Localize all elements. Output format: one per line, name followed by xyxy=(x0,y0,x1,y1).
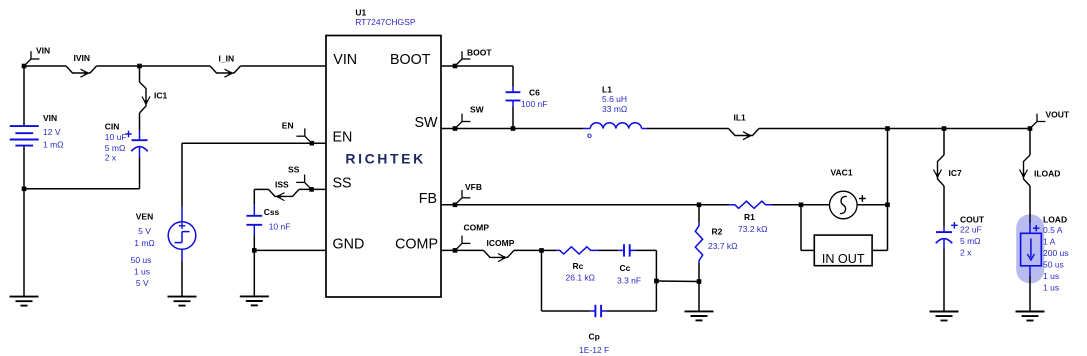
value 2 x xyxy=(105,153,117,163)
svg-text:IC1: IC1 xyxy=(154,91,168,101)
svg-text:COMP: COMP xyxy=(464,223,490,233)
svg-text:BOOT: BOOT xyxy=(467,48,492,58)
capacitor COUT electrolytic xyxy=(936,232,952,249)
current probe ILOAD xyxy=(1020,155,1061,186)
svg-text:IL1: IL1 xyxy=(734,113,747,123)
node BOOT flag xyxy=(455,48,492,67)
op-amp U1 body xyxy=(326,36,441,298)
label VAC1 xyxy=(831,168,853,178)
junction VAC1 right xyxy=(885,203,890,208)
svg-text:R1: R1 xyxy=(744,212,755,222)
node COMP flag xyxy=(455,223,489,251)
phase dot o xyxy=(587,131,592,140)
svg-text:5 mΩ: 5 mΩ xyxy=(960,236,981,246)
wire ILOAD to LOAD xyxy=(1029,186,1031,233)
pin VIN xyxy=(333,52,357,68)
wire VOUT rail xyxy=(759,128,1030,130)
pin COMP xyxy=(395,237,438,253)
wire Cp branch left xyxy=(541,250,543,311)
current probe IL1 xyxy=(729,113,760,140)
value 1 mOhm VEN xyxy=(134,238,155,248)
svg-text:IN OUT: IN OUT xyxy=(822,252,865,266)
svg-text:5 V: 5 V xyxy=(138,226,151,236)
svg-text:12 V: 12 V xyxy=(43,127,61,137)
label LOAD xyxy=(1043,215,1067,225)
value 1E-12 F xyxy=(579,345,609,355)
current source LOAD xyxy=(1021,233,1042,265)
wire ILOAD branch top xyxy=(1029,129,1031,156)
svg-text:10 uF: 10 uF xyxy=(105,132,127,142)
svg-text:o: o xyxy=(587,131,592,140)
node VFB flag xyxy=(455,182,482,205)
inductor L1 xyxy=(583,123,647,129)
svg-text:VFB: VFB xyxy=(465,182,482,192)
svg-text:10 nF: 10 nF xyxy=(269,222,291,232)
label R1 xyxy=(744,212,755,222)
wire VEN bottom xyxy=(181,249,183,296)
wire Css bottom xyxy=(253,236,255,251)
wire SS net left xyxy=(254,188,268,190)
wire EN net xyxy=(182,142,326,144)
wire top rail from VIN source to IVIN probe xyxy=(24,65,66,67)
current probe ICOMP xyxy=(484,238,515,261)
value 5.6 uH xyxy=(602,94,627,104)
node EN flag xyxy=(282,120,312,143)
wire Cc to right node xyxy=(636,249,656,251)
svg-text:VIN: VIN xyxy=(43,113,57,123)
svg-text:FB: FB xyxy=(419,191,437,207)
junction comp branch xyxy=(654,279,659,284)
wire comp branch to R2 xyxy=(656,280,699,283)
plus mark VAC1 xyxy=(859,195,866,202)
svg-text:IC7: IC7 xyxy=(949,168,963,178)
label Css xyxy=(264,207,280,217)
junction FB R2 xyxy=(697,203,702,208)
svg-text:1 mΩ: 1 mΩ xyxy=(43,140,64,150)
svg-text:U1: U1 xyxy=(355,8,366,18)
svg-text:VIN: VIN xyxy=(333,52,357,68)
wire IVIN to CIN node xyxy=(97,65,211,67)
value 5 mOhm COUT xyxy=(960,236,981,246)
value 1 us xyxy=(134,266,150,276)
probe block IN OUT xyxy=(814,235,872,266)
junction VAC1 left xyxy=(799,203,804,208)
value 200 us xyxy=(1043,248,1069,258)
wire Cp bottom left xyxy=(542,310,590,312)
pulse source VEN xyxy=(168,222,196,250)
wire IC1 to CIN xyxy=(139,113,141,139)
junction VOUT branch xyxy=(885,126,890,131)
value 100 nF xyxy=(521,99,547,109)
value 50 us LOAD xyxy=(1043,260,1064,270)
value 1 us rise xyxy=(1043,271,1059,281)
plus mark LOAD xyxy=(1033,225,1039,231)
wire VOUT branch down xyxy=(887,129,889,205)
svg-text:COMP: COMP xyxy=(395,237,438,253)
svg-text:LOAD: LOAD xyxy=(1043,215,1067,225)
svg-text:SW: SW xyxy=(470,104,485,114)
wire Css top xyxy=(253,189,255,215)
label L1 xyxy=(602,85,612,95)
highlight pill LOAD xyxy=(1016,214,1044,283)
value 26.1 kOhm xyxy=(566,273,596,283)
current probe I_IN xyxy=(210,54,241,78)
junction VOUT corner xyxy=(1028,126,1033,131)
value 10 uF xyxy=(105,132,127,142)
value 2 x COUT xyxy=(960,248,972,258)
node VIN flag xyxy=(24,46,50,67)
junction SS flag xyxy=(309,187,314,192)
wire IN branch down xyxy=(801,205,814,251)
svg-text:SW: SW xyxy=(414,115,438,131)
svg-text:200 us: 200 us xyxy=(1043,248,1069,258)
wire CIN bottom xyxy=(139,157,141,188)
resistor R1 xyxy=(729,201,772,208)
wire COUT to ground xyxy=(943,249,945,312)
plus mark COUT xyxy=(951,222,958,229)
value 33 mOhm xyxy=(602,104,627,114)
value 73.2 kOhm xyxy=(738,224,768,234)
junction R2 bottom xyxy=(697,279,702,284)
label VEN xyxy=(136,212,153,222)
current probe ISS xyxy=(269,179,300,200)
wire VAC1 right xyxy=(857,204,888,206)
svg-text:VEN: VEN xyxy=(136,212,153,222)
wire BOOT net xyxy=(441,65,513,67)
svg-text:73.2 kΩ: 73.2 kΩ xyxy=(738,224,768,234)
svg-text:RICHTEK: RICHTEK xyxy=(345,151,425,167)
svg-text:1 A: 1 A xyxy=(1043,237,1056,247)
current probe IC1 xyxy=(140,82,168,113)
label C6 xyxy=(529,88,540,98)
svg-text:5 mΩ: 5 mΩ xyxy=(105,143,126,153)
node SS flag xyxy=(288,164,312,189)
svg-text:IVIN: IVIN xyxy=(74,53,91,63)
label U1 xyxy=(355,8,366,18)
wire IC7 branch top xyxy=(943,129,945,156)
wire COMP net xyxy=(441,249,484,251)
svg-text:Rc: Rc xyxy=(573,261,584,271)
junction at VIN source top xyxy=(22,64,27,69)
svg-text:GND: GND xyxy=(333,237,365,253)
pin FB xyxy=(419,191,437,207)
svg-text:VAC1: VAC1 xyxy=(831,168,853,178)
value 1 A xyxy=(1043,237,1056,247)
wire bottom tie to CIN xyxy=(24,188,140,190)
svg-text:COUT: COUT xyxy=(960,214,985,224)
value 23.7 kOhm xyxy=(708,241,738,251)
wire ICOMP to node xyxy=(514,249,542,251)
svg-text:ICOMP: ICOMP xyxy=(487,238,515,248)
svg-text:Css: Css xyxy=(264,207,280,217)
node VOUT flag xyxy=(1030,110,1070,129)
logo RICHTEK xyxy=(345,151,425,167)
capacitor Css xyxy=(246,216,262,236)
junction SW flag xyxy=(453,126,458,131)
pin BOOT xyxy=(390,52,431,68)
current probe IC7 xyxy=(934,155,963,186)
ground under Css xyxy=(240,296,269,305)
capacitor Cc xyxy=(618,244,636,256)
label RT7247CHGSP xyxy=(355,17,416,27)
junction at CIN branch xyxy=(137,64,142,69)
label CIN xyxy=(105,122,120,132)
junction C6 SW xyxy=(511,126,516,131)
wire CIN branch top xyxy=(139,66,141,82)
svg-text:RT7247CHGSP: RT7247CHGSP xyxy=(355,17,416,27)
label COUT xyxy=(960,214,985,224)
junction COMP node xyxy=(539,248,544,253)
junction BOOT flag xyxy=(453,64,458,69)
svg-text:ISS: ISS xyxy=(275,179,289,189)
svg-text:VOUT: VOUT xyxy=(1046,110,1070,120)
wire FB net xyxy=(441,204,729,206)
svg-text:Cp: Cp xyxy=(589,332,600,342)
voltage source VIN battery symbol xyxy=(10,126,39,146)
wire GND net xyxy=(254,249,326,251)
svg-text:R2: R2 xyxy=(712,227,723,237)
capacitor Cp xyxy=(590,305,607,317)
svg-text:SS: SS xyxy=(288,164,300,174)
wire IC7 to COUT xyxy=(943,186,945,232)
pin EN xyxy=(333,129,353,145)
capacitor C6 xyxy=(506,92,521,107)
wire L1 to IL1 xyxy=(647,128,729,130)
ground under VIN source xyxy=(10,297,39,306)
wire I_IN to U1 VIN pin xyxy=(241,65,327,67)
wire VIN source bottom to ground xyxy=(23,147,25,297)
svg-text:100 nF: 100 nF xyxy=(521,99,547,109)
wire SW rail xyxy=(441,128,583,130)
svg-text:SS: SS xyxy=(333,176,352,192)
svg-text:1 us: 1 us xyxy=(1043,271,1059,281)
junction EN flag xyxy=(310,141,315,146)
svg-text:5.6 uH: 5.6 uH xyxy=(602,94,627,104)
svg-text:1 us: 1 us xyxy=(134,266,150,276)
value 12 V xyxy=(43,127,61,137)
wire ISS to U1 xyxy=(299,188,326,190)
svg-text:VIN: VIN xyxy=(36,46,50,56)
ac source VAC1 xyxy=(830,191,858,219)
pin GND xyxy=(333,237,365,253)
value 0.5 A xyxy=(1043,225,1063,235)
svg-text:EN: EN xyxy=(333,129,353,145)
svg-text:33 mΩ: 33 mΩ xyxy=(602,104,627,114)
svg-text:BOOT: BOOT xyxy=(390,52,431,68)
pin SS xyxy=(333,176,352,192)
pin SW xyxy=(414,115,438,131)
svg-text:Cc: Cc xyxy=(620,263,631,273)
value 5 mOhm xyxy=(105,143,126,153)
ground under R2 xyxy=(685,311,714,320)
node SW flag xyxy=(455,104,485,128)
wire OUT branch xyxy=(872,205,887,251)
wire EN down to VEN xyxy=(181,143,183,221)
svg-text:26.1 kΩ: 26.1 kΩ xyxy=(566,273,596,283)
value 10 nF xyxy=(269,222,291,232)
wire C6 to SW rail xyxy=(512,107,514,129)
svg-text:50 us: 50 us xyxy=(131,255,152,265)
svg-text:ILOAD: ILOAD xyxy=(1034,169,1060,179)
wire comp right vertical xyxy=(655,250,657,311)
svg-text:22 uF: 22 uF xyxy=(960,225,982,235)
value 50 us xyxy=(131,255,152,265)
wire R2 to ground xyxy=(698,282,700,312)
wire LOAD to ground xyxy=(1029,266,1031,312)
junction VFB flag xyxy=(453,203,458,208)
svg-text:50 us: 50 us xyxy=(1043,260,1064,270)
wire Cp bottom right xyxy=(607,310,656,312)
svg-text:3.3 nF: 3.3 nF xyxy=(617,276,641,286)
value 5 V delay xyxy=(136,278,149,288)
value 1 us fall xyxy=(1043,283,1059,293)
label Rc xyxy=(573,261,584,271)
svg-text:1E-12 F: 1E-12 F xyxy=(579,345,609,355)
junction COMP flag xyxy=(453,248,458,253)
svg-text:C6: C6 xyxy=(529,88,540,98)
ground under COUT xyxy=(930,312,959,321)
label R2 xyxy=(712,227,723,237)
wire R1 to VAC1 xyxy=(772,204,830,206)
resistor R2 xyxy=(695,205,702,282)
label Cp xyxy=(589,332,600,342)
svg-text:2 x: 2 x xyxy=(105,153,117,163)
svg-text:CIN: CIN xyxy=(105,122,120,132)
svg-text:0.5 A: 0.5 A xyxy=(1043,225,1063,235)
svg-text:EN: EN xyxy=(282,120,294,130)
label Cc xyxy=(620,263,631,273)
label VIN source xyxy=(43,113,57,123)
svg-text:1 mΩ: 1 mΩ xyxy=(134,238,155,248)
svg-text:I_IN: I_IN xyxy=(219,54,235,64)
ground under LOAD xyxy=(1016,312,1045,321)
ground under VEN xyxy=(168,297,197,306)
svg-text:5 V: 5 V xyxy=(136,278,149,288)
voltage source VIN stem top xyxy=(23,66,25,125)
value 1 mOhm xyxy=(43,140,64,150)
current probe IVIN xyxy=(66,53,97,77)
value 3.3 nF xyxy=(617,276,641,286)
plus mark CIN xyxy=(125,131,132,138)
junction IC7 branch xyxy=(942,126,947,131)
value 22 uF xyxy=(960,225,982,235)
junction Css GND xyxy=(252,248,257,253)
svg-text:23.7 kΩ: 23.7 kΩ xyxy=(708,241,738,251)
resistor Rc xyxy=(542,247,619,254)
capacitor CIN electrolytic xyxy=(131,140,147,157)
wire BOOT corner down xyxy=(512,66,514,92)
junction at battery bottom tie xyxy=(22,187,27,192)
svg-text:1 us: 1 us xyxy=(1043,283,1059,293)
wire GND to ground xyxy=(253,250,255,296)
value 5 V xyxy=(138,226,151,236)
svg-text:2 x: 2 x xyxy=(960,248,972,258)
